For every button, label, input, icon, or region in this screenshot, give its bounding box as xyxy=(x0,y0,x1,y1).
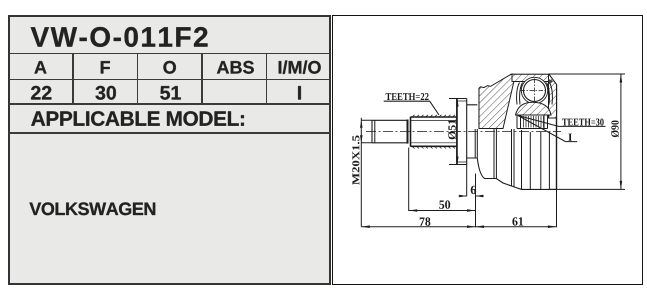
bell right face xyxy=(556,85,558,190)
table text val 51 xyxy=(160,86,181,100)
50-dim line xyxy=(409,210,476,212)
M20X1.5 dimension line xyxy=(361,118,372,227)
ball crosshair xyxy=(521,79,550,104)
M20 arrows xyxy=(360,120,363,143)
table v-line 1 xyxy=(72,53,74,104)
table text F xyxy=(101,61,110,73)
thread cylinder M20 xyxy=(372,120,408,143)
table h-line 1 xyxy=(8,53,331,55)
dia51 dimension line xyxy=(456,99,458,165)
bell exterior bottom profile xyxy=(477,158,556,189)
50-dim extension line xyxy=(408,148,410,212)
bell outer top edge xyxy=(511,73,549,75)
6-dim extension lines xyxy=(467,165,476,228)
table text VW-O-011F2 xyxy=(31,27,208,47)
right back wall hatched xyxy=(549,74,557,118)
bell mouth face xyxy=(478,88,480,129)
dia90 extension lines xyxy=(549,74,625,189)
label 50 xyxy=(439,200,450,208)
drawing panel border xyxy=(332,15,643,285)
TEETH=30 leader xyxy=(518,116,606,127)
table text VOLKSWAGEN xyxy=(29,202,155,215)
label 78 xyxy=(420,217,431,225)
TEETH=22 leader xyxy=(384,101,439,115)
I leader xyxy=(518,116,577,142)
6-dim line w/ outside arrows xyxy=(459,195,485,197)
centerline main axis xyxy=(366,131,561,133)
spline root lines xyxy=(411,121,457,143)
label TEETH=30 xyxy=(562,119,604,126)
table h-line 3 xyxy=(8,103,331,105)
78/61 dim line xyxy=(361,226,556,228)
disc (boot land, dia 51) xyxy=(449,99,467,165)
table text val 30 xyxy=(96,86,116,100)
table text val I xyxy=(298,86,301,99)
table text I/M/O xyxy=(279,61,321,74)
disc chamfer lines xyxy=(457,101,467,162)
table text APPLICABLE MODEL: xyxy=(31,111,244,126)
spline section outline xyxy=(411,117,457,147)
table text O xyxy=(163,61,176,74)
table text val 22 xyxy=(31,86,51,100)
cage left xyxy=(517,83,520,105)
dia90 dim line xyxy=(620,74,622,189)
snap ring notch xyxy=(549,79,554,84)
table text ABS xyxy=(217,61,254,74)
thread chamfer line xyxy=(374,120,376,143)
cage right xyxy=(550,83,553,105)
table h-line 4 xyxy=(8,132,331,134)
table panel xyxy=(8,15,331,285)
table text A xyxy=(34,61,46,73)
table v-line 2 xyxy=(137,53,139,104)
label 61 xyxy=(512,217,523,225)
bell exterior edge lines bottom half xyxy=(475,129,549,189)
label TEETH=22 xyxy=(386,93,429,100)
label dia90 xyxy=(611,120,619,137)
neck (boot groove) xyxy=(467,105,478,158)
label dia51 xyxy=(448,120,456,140)
hub spline bore teeth xyxy=(524,116,544,128)
table v-line 3 xyxy=(201,53,203,104)
bell top right chamfer xyxy=(549,74,557,84)
table h-line 2 xyxy=(8,79,331,81)
thread step face xyxy=(407,120,409,144)
inner race hub xyxy=(517,115,548,129)
table v-line 4 xyxy=(266,53,268,104)
spline teeth ticks bottom xyxy=(412,146,455,148)
inner race lens hatched xyxy=(516,102,552,115)
label M20X1.5 xyxy=(352,136,359,185)
61 right extension xyxy=(556,189,558,227)
label I xyxy=(568,134,572,141)
outer race top band hatched xyxy=(512,74,549,81)
label 6 xyxy=(471,186,477,194)
spline teeth ticks top xyxy=(412,115,455,117)
bell mouth wedge hatched xyxy=(479,74,514,128)
ball xyxy=(524,80,546,102)
ball track groove xyxy=(521,77,547,103)
drawing svg xyxy=(331,15,642,285)
